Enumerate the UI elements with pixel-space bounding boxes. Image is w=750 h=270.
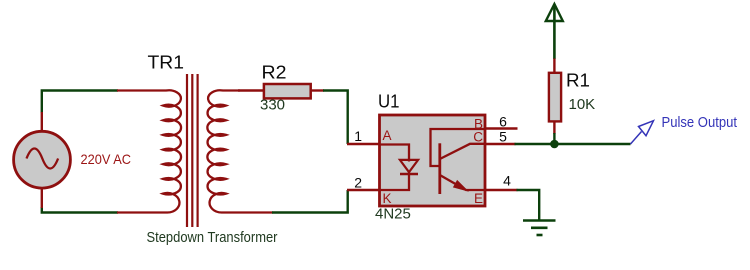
wire: R2 to U1 pin 1	[323, 91, 348, 145]
U1 pin 6 lead (stub)	[486, 127, 518, 130]
resistor R1 bottom lead	[553, 121, 555, 134]
svg-text:6: 6	[499, 114, 507, 130]
U1 emitter arrowhead	[454, 181, 467, 190]
AC source V1 lead top	[41, 112, 43, 132]
transformer TR1 core line 3	[197, 74, 199, 227]
optocoupler U1 body	[380, 115, 486, 206]
junction node dot	[550, 140, 559, 149]
svg-text:4: 4	[503, 173, 511, 189]
svg-text:10K: 10K	[569, 96, 596, 113]
AC source sine symbol	[27, 149, 59, 169]
ground bar 2	[531, 227, 548, 230]
U1 internal LED triangle	[400, 160, 418, 172]
svg-text:R1: R1	[566, 71, 590, 91]
U1 pin 1 lead	[347, 143, 380, 146]
resistor R2 left lead	[238, 89, 265, 91]
power arrow symbol	[546, 4, 563, 21]
svg-text:220V AC: 220V AC	[81, 151, 132, 167]
ground bar 1	[523, 219, 556, 222]
U1 internal LED cathode wire	[380, 172, 410, 190]
ground bar 3	[537, 234, 543, 237]
svg-text:330: 330	[260, 97, 285, 114]
output terminal arrowhead	[639, 121, 654, 136]
svg-text:E: E	[474, 191, 483, 206]
U1 phototransistor collector	[440, 144, 486, 159]
transformer TR1 secondary coil	[207, 90, 273, 212]
U1 phototransistor base bar	[438, 143, 441, 194]
power rail line	[553, 5, 556, 59]
svg-text:TR1: TR1	[148, 53, 185, 73]
resistor R2 body	[264, 84, 311, 98]
AC source V1 circle	[14, 131, 71, 188]
svg-text:Pulse Output: Pulse Output	[662, 114, 738, 131]
wire: R1 bottom to output node	[553, 133, 555, 144]
wire: U1 pin 4 to ground	[517, 190, 540, 221]
wire: output node to terminal	[554, 143, 630, 145]
output terminal line	[631, 132, 642, 145]
svg-text:K: K	[383, 191, 392, 206]
U1 pin 4 lead	[486, 189, 518, 192]
U1 pin 2 lead	[347, 189, 380, 192]
wire: AC source bottom rail to transformer primary bottom	[42, 207, 118, 213]
transformer TR1 primary coil	[117, 90, 181, 212]
U1 internal LED cathode bar	[400, 173, 418, 175]
svg-text:R2: R2	[262, 63, 287, 83]
resistor R2 right lead	[311, 89, 324, 91]
svg-text:5: 5	[499, 129, 507, 145]
wire: U1 pin 2 down to secondary bottom rail	[272, 190, 348, 213]
svg-text:4N25: 4N25	[375, 206, 411, 223]
U1 phototransistor emitter	[440, 175, 486, 190]
transformer TR1 core line 2	[191, 74, 193, 227]
transformer TR1 core line 1	[186, 74, 188, 227]
wire: AC source top to transformer primary top	[42, 91, 118, 113]
wire: U1 pin 5 to output node	[515, 143, 555, 145]
U1 pin 5 lead	[486, 143, 516, 146]
AC source V1 lead bottom	[41, 187, 43, 208]
svg-text:C: C	[473, 130, 483, 145]
svg-text:A: A	[383, 128, 392, 143]
U1 internal base wire from pin B	[431, 129, 486, 166]
svg-text:2: 2	[354, 175, 362, 191]
resistor R1 body	[549, 73, 561, 122]
svg-text:U1: U1	[378, 92, 400, 112]
U1 internal LED anode wire	[380, 145, 410, 162]
svg-text:Stepdown Transformer: Stepdown Transformer	[147, 230, 278, 246]
resistor R1 top lead	[553, 59, 555, 75]
svg-text:1: 1	[354, 128, 362, 144]
